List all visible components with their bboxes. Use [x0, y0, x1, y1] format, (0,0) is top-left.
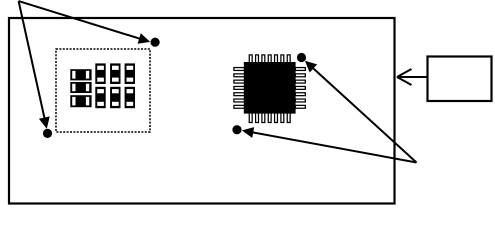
callout arrow to D2	[19, 1, 50, 129]
resistor R1 (horizontal SMD)	[70, 69, 91, 80]
callout arrow to D4	[242, 127, 417, 162]
capacitor C4 (vertical SMD)	[95, 87, 105, 108]
node dot D2 (bottom-left of dashed box)	[43, 129, 52, 138]
U1 bottom pins	[249, 113, 290, 123]
resistor R3 (horizontal SMD)	[70, 95, 91, 107]
node dot D4 (below-left of U1)	[232, 125, 241, 134]
node dot D3 (top-right of U1)	[297, 53, 306, 62]
callout arrow to D1	[19, 1, 151, 44]
node dot D1 (top-right of dashed box)	[151, 38, 160, 47]
callout arrow to D3	[305, 61, 417, 163]
capacitor C5 (vertical SMD)	[110, 87, 120, 108]
U1 body	[244, 62, 296, 114]
side box (label box at right)	[428, 57, 492, 102]
capacitor C6 (vertical SMD)	[125, 87, 135, 108]
capacitor C1 (vertical SMD)	[95, 63, 105, 84]
dashed component-group box	[56, 49, 150, 132]
U1 right pins	[295, 68, 305, 109]
capacitor C2 (vertical SMD)	[110, 63, 120, 84]
open arrow from side box to board edge	[397, 69, 428, 85]
resistor R2 (horizontal SMD)	[70, 82, 91, 93]
U1 left pins	[234, 68, 245, 109]
U1 top pins	[249, 55, 290, 64]
board outline	[9, 18, 395, 204]
IC U1 (quad flat pack)	[234, 55, 305, 123]
capacitor C3 (vertical SMD)	[125, 63, 135, 84]
